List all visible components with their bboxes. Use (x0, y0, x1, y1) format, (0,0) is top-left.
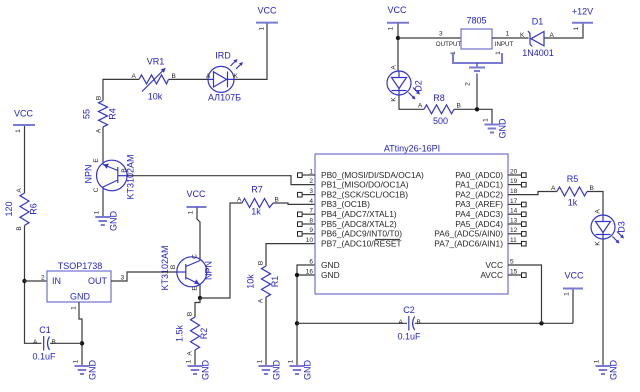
svg-text:B: B (52, 339, 56, 346)
svg-text:A: A (258, 298, 265, 303)
svg-text:E: E (192, 286, 199, 291)
svg-text:B: B (187, 312, 194, 316)
svg-text:A: A (33, 339, 38, 346)
pin 4 PB3 (309, 198, 370, 209)
wire R4 to Q1 emitter (102, 127, 104, 161)
svg-text:7: 7 (309, 208, 313, 215)
svg-text:16: 16 (306, 268, 314, 275)
capacitor C2 0.1uF (397, 305, 421, 342)
svg-text:R5: R5 (567, 174, 579, 184)
svg-text:0.1uF: 0.1uF (32, 352, 56, 362)
svg-text:C2: C2 (403, 305, 415, 315)
svg-text:14: 14 (510, 208, 518, 215)
svg-text:C: C (93, 187, 100, 192)
pin 18 PA2 (455, 188, 517, 199)
svg-text:1: 1 (309, 169, 313, 176)
svg-text:PB2_(SCK/SCL/OC1B): PB2_(SCK/SCL/OC1B) (321, 189, 408, 199)
svg-text:АЛ107Б: АЛ107Б (208, 93, 241, 103)
svg-text:B: B (172, 73, 176, 80)
svg-text:PA3_(AREF): PA3_(AREF) (455, 199, 503, 209)
svg-text:GND: GND (498, 118, 508, 139)
svg-text:1: 1 (594, 359, 601, 363)
capacitor C1 0.1uF (32, 325, 82, 362)
svg-text:GND: GND (272, 360, 282, 381)
svg-text:9: 9 (309, 227, 313, 234)
node chip-gnd / C2 wire (295, 321, 299, 325)
svg-text:A: A (96, 128, 103, 133)
svg-text:1: 1 (188, 210, 195, 214)
svg-text:19: 19 (510, 178, 518, 185)
svg-text:PA0_(ADC0): PA0_(ADC0) (455, 170, 503, 180)
svg-text:500: 500 (433, 116, 448, 126)
node R6/TSOP pin2 (22, 279, 26, 283)
power symbol VCC (top middle) (256, 6, 278, 31)
power symbol VCC (bottom right) (563, 271, 584, 324)
svg-text:E: E (93, 158, 100, 163)
svg-text:120: 120 (4, 201, 14, 216)
pin 3 PB2 (298, 188, 409, 199)
transistor Q2 KT3102AM NPN (160, 245, 214, 290)
svg-text:1: 1 (573, 26, 580, 30)
svg-text:R4: R4 (108, 108, 118, 120)
svg-text:PA1_(ADC1): PA1_(ADC1) (455, 180, 503, 190)
svg-text:A: A (237, 197, 242, 204)
pin 2 PB1 (309, 178, 408, 190)
pin 16 GND (306, 268, 340, 280)
svg-text:1: 1 (483, 118, 490, 122)
svg-text:B: B (16, 226, 23, 230)
wire 7805 gnd pin down (476, 79, 478, 109)
pin 15 AVCC (480, 268, 526, 280)
svg-text:1: 1 (495, 51, 502, 55)
svg-text:1: 1 (71, 306, 78, 310)
svg-text:B: B (457, 103, 461, 110)
svg-text:GND: GND (303, 360, 313, 381)
wire Q1 collector to ground (102, 190, 104, 217)
svg-text:1: 1 (388, 26, 395, 30)
resistor R5 1k (551, 174, 594, 208)
svg-text:PA2_(ADC2): PA2_(ADC2) (455, 189, 503, 199)
svg-text:8: 8 (309, 217, 313, 224)
svg-text:PB4_(ADC7/XTAL1): PB4_(ADC7/XTAL1) (321, 209, 397, 219)
wire R1 to ground (265, 297, 267, 366)
svg-text:C1: C1 (39, 325, 51, 335)
wire MCU pin16 stub (297, 274, 315, 276)
pin 8 PB5 (298, 217, 397, 228)
svg-text:GND: GND (88, 360, 98, 381)
svg-text:1: 1 (73, 359, 80, 363)
svg-text:55: 55 (82, 109, 92, 119)
svg-text:A: A (418, 103, 423, 110)
svg-text:R6: R6 (29, 203, 39, 215)
wire TSOP OUT to Q2 base (111, 272, 177, 281)
svg-text:15: 15 (510, 268, 518, 275)
svg-text:11: 11 (510, 237, 517, 244)
pin 7 PB4 (298, 208, 397, 219)
svg-text:0.1uF: 0.1uF (397, 332, 421, 342)
svg-text:VR1: VR1 (147, 57, 165, 67)
svg-text:OUTPUT: OUTPUT (436, 41, 462, 48)
svg-text:TSOP1738: TSOP1738 (58, 261, 103, 271)
svg-text:PB6_(ADC9/INT0/T0): PB6_(ADC9/INT0/T0) (321, 229, 402, 239)
svg-text:1N4001: 1N4001 (522, 48, 554, 58)
svg-text:2: 2 (465, 82, 472, 86)
wire R2 to ground (194, 350, 196, 366)
wire node to TSOP IN (25, 280, 48, 282)
ground (under Q1) (94, 210, 119, 231)
svg-text:1: 1 (94, 210, 101, 214)
wire D3 to ground (602, 239, 604, 366)
wire R6 to TSOP node and C1 (25, 226, 42, 344)
wire MCU pin18 to R5 (508, 192, 557, 195)
svg-text:NPN: NPN (204, 261, 214, 280)
resistor R4 55 (82, 96, 118, 133)
svg-text:GND: GND (109, 211, 119, 232)
wire R8 to ground (454, 109, 492, 124)
svg-text:GND: GND (70, 292, 91, 302)
pin 5 VCC (485, 258, 514, 270)
svg-text:GND: GND (609, 360, 619, 381)
wire VCC to R6 (24, 126, 26, 193)
svg-text:PA5_(ADC4): PA5_(ADC4) (455, 219, 503, 229)
svg-text:1: 1 (288, 359, 295, 363)
wire IRD anode to VR1 (169, 78, 209, 80)
pin 12 PA6 (434, 227, 526, 238)
svg-text:+12V: +12V (572, 7, 593, 17)
ground (under R2) (186, 359, 211, 380)
svg-text:PB3_(OC1B): PB3_(OC1B) (321, 199, 370, 209)
svg-text:10k: 10k (246, 274, 256, 289)
resistor R1 10k (246, 261, 281, 303)
svg-text:20: 20 (510, 169, 518, 176)
svg-text:1: 1 (186, 359, 193, 363)
transistor Q1 KT3102AM NPN (84, 154, 136, 199)
node R8 / 7805 gnd (475, 107, 479, 111)
resistor R8 500 (418, 93, 461, 126)
ground (under MCU) (288, 359, 313, 380)
svg-text:1: 1 (257, 359, 264, 363)
pin 9 PB6 (298, 227, 403, 238)
pin 19 PA1 (455, 178, 526, 190)
LED D2 (387, 65, 424, 102)
pin 20 PA0 (455, 169, 526, 180)
wire Q2 emitter to node (199, 287, 201, 298)
svg-text:D1: D1 (532, 17, 544, 27)
svg-text:VCC: VCC (564, 271, 584, 281)
svg-text:C: C (192, 254, 199, 259)
svg-text:NPN: NPN (84, 164, 94, 183)
ground (under D3) (594, 359, 619, 380)
svg-text:B: B (170, 265, 177, 269)
svg-text:OUT: OUT (88, 276, 108, 286)
svg-text:2: 2 (41, 275, 45, 282)
svg-text:IN: IN (52, 276, 61, 286)
svg-text:VCC: VCC (387, 5, 407, 15)
wire VCC to Q2 collector (197, 208, 200, 259)
svg-text:VCC: VCC (14, 109, 34, 119)
svg-text:K: K (595, 241, 602, 246)
svg-text:VCC: VCC (485, 260, 503, 270)
svg-text:PA6_(ADC5/AIN0): PA6_(ADC5/AIN0) (434, 229, 503, 239)
wire R7 to MCU pin4 (273, 203, 315, 204)
ground (under C1/TSOP) (73, 359, 98, 380)
resistor R2 1.5k (175, 312, 210, 356)
wire C2 B to VCC corner (415, 322, 573, 324)
svg-text:INPUT: INPUT (495, 41, 514, 48)
svg-text:17: 17 (510, 198, 518, 205)
svg-text:PA7_(ADC6/AIN1): PA7_(ADC6/AIN1) (434, 238, 503, 248)
svg-text:10k: 10k (148, 92, 163, 102)
wire D1 to +12V (544, 24, 583, 39)
svg-text:R8: R8 (433, 93, 445, 103)
svg-text:4: 4 (309, 198, 313, 205)
svg-text:1: 1 (506, 31, 510, 38)
svg-text:K: K (520, 32, 525, 39)
power symbol VCC (above Q2) (186, 189, 206, 214)
svg-text:K: K (391, 97, 398, 102)
wire node to R2 (195, 298, 200, 317)
svg-text:12: 12 (510, 227, 518, 234)
svg-text:A: A (391, 65, 398, 70)
node MCU gnd pins (295, 273, 299, 277)
svg-text:A: A (399, 319, 404, 326)
svg-text:KT3102AM: KT3102AM (160, 245, 170, 290)
svg-text:K: K (234, 73, 239, 80)
svg-text:A: A (551, 185, 556, 192)
LED D3 (591, 209, 627, 246)
svg-text:1: 1 (564, 292, 571, 296)
svg-text:VCC: VCC (186, 189, 206, 199)
svg-text:7805: 7805 (466, 16, 486, 26)
pin 10 PB7 (306, 237, 402, 248)
ground (top right) (483, 118, 508, 139)
node C1/TSOP gnd (80, 341, 84, 345)
svg-text:ATtiny26-16PI: ATtiny26-16PI (384, 144, 440, 154)
wire TSOP GND pin down (79, 302, 82, 366)
svg-text:10: 10 (306, 237, 314, 244)
wire MCU pin10 to R1 (266, 244, 315, 266)
pin 6 GND (309, 258, 339, 270)
wire C2 net (chip gnd to C2 to VCC) (297, 322, 407, 324)
svg-text:R7: R7 (251, 185, 263, 195)
wire R5 to D3 (587, 192, 603, 216)
svg-text:3: 3 (309, 188, 313, 195)
wire VCC to IRD cathode (235, 24, 268, 80)
LED IRD АЛ107Б (206, 51, 243, 103)
svg-text:1k: 1k (568, 198, 578, 208)
regulator U2 7805 (436, 16, 514, 86)
svg-text:18: 18 (510, 188, 518, 195)
resistor R7 1k (237, 185, 279, 217)
svg-text:6: 6 (309, 258, 313, 265)
pin 1 PB0 (298, 169, 425, 180)
pin 11 PA7 (434, 237, 526, 248)
wire 7805 INPUT to D1 (492, 37, 529, 39)
svg-text:VCC: VCC (257, 6, 277, 16)
svg-text:1k: 1k (251, 207, 261, 217)
svg-text:B: B (417, 319, 421, 326)
potentiometer VR1 10k (132, 57, 176, 102)
svg-text:D3: D3 (617, 221, 627, 233)
svg-text:13: 13 (510, 217, 518, 224)
svg-text:GND: GND (201, 360, 211, 381)
svg-text:B: B (258, 261, 265, 265)
svg-text:PB0_(MOSI/DI/SDA/OC1A): PB0_(MOSI/DI/SDA/OC1A) (321, 170, 424, 180)
svg-text:AVCC: AVCC (480, 270, 503, 280)
svg-text:GND: GND (321, 260, 340, 270)
node C2 / pin5 wire (539, 321, 543, 325)
svg-text:B: B (96, 96, 103, 100)
wire node up to R7 (200, 203, 242, 298)
svg-text:5: 5 (510, 258, 514, 265)
svg-text:KT3102AM: KT3102AM (126, 154, 136, 199)
pin 13 PA5 (455, 217, 526, 228)
wire MCU pin5 to node (508, 265, 542, 323)
svg-text:GND: GND (321, 270, 340, 280)
wire D2 to R8 (399, 95, 424, 109)
IR receiver TSOP1738 (41, 261, 125, 310)
svg-text:PA4_(ADC3): PA4_(ADC3) (455, 209, 503, 219)
wire MCU GND pins to ground (297, 265, 315, 366)
svg-text:A: A (16, 188, 23, 193)
IC U1 ATtiny26-16PI (315, 144, 508, 295)
node Q2 emitter / R2 / R7 (198, 296, 202, 300)
svg-text:1.5k: 1.5k (175, 324, 185, 342)
wire VCC down to D2 (397, 24, 399, 72)
power symbol +12V (572, 7, 593, 31)
wire node to 7805 OUTPUT (398, 37, 461, 39)
svg-text:3: 3 (439, 31, 443, 38)
node VCC / 7805 output (396, 36, 400, 40)
wire Q1 base to MCU pin2 (127, 176, 315, 185)
svg-text:A: A (187, 351, 194, 356)
svg-text:2: 2 (309, 178, 313, 185)
svg-text:R2: R2 (199, 328, 209, 340)
pin 14 PA4 (455, 208, 526, 219)
power symbol VCC (left) (13, 109, 35, 133)
svg-text:A: A (595, 209, 602, 214)
ground (under R1) (257, 359, 282, 380)
svg-text:D2: D2 (414, 80, 424, 92)
svg-text:PB5_(ADC8/XTAL2): PB5_(ADC8/XTAL2) (321, 219, 397, 229)
svg-text:R1: R1 (270, 276, 280, 288)
power symbol VCC (top right) (387, 5, 409, 30)
svg-text:1: 1 (259, 26, 266, 30)
svg-text:IRD: IRD (215, 51, 231, 61)
diode D1 1N4001 (520, 17, 555, 59)
svg-text:1: 1 (15, 129, 22, 133)
pin 17 PA3 (455, 198, 526, 209)
svg-text:PB1_(MISO/DO/OC1A): PB1_(MISO/DO/OC1A) (321, 180, 409, 190)
wire VR1 to R4 (103, 79, 139, 100)
resistor R6 120 (4, 188, 39, 231)
